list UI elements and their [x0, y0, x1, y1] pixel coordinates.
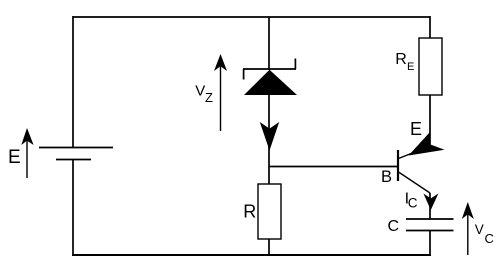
svg-text:C: C — [485, 231, 494, 246]
svg-text:V: V — [475, 222, 484, 237]
transistor Q1 base bar — [397, 150, 399, 181]
capacitor C plates — [406, 219, 454, 231]
label V_C — [475, 222, 494, 246]
wire zener branch top — [268, 17, 270, 70]
svg-text:Z: Z — [205, 90, 213, 105]
wire top rail — [73, 16, 430, 18]
current arrow on zener branch (pointing down) — [260, 122, 279, 151]
wire collector to capacitor — [429, 193, 431, 219]
svg-text:C: C — [388, 218, 400, 235]
wire bottom rail — [72, 254, 431, 256]
svg-text:E: E — [8, 147, 21, 168]
svg-text:E: E — [407, 61, 414, 73]
resistor RE body — [419, 38, 442, 95]
svg-text:E: E — [410, 119, 422, 139]
label R_E — [395, 51, 414, 73]
label V_Z — [195, 83, 213, 106]
wire base (node to transistor base) — [269, 166, 398, 168]
battery E plates — [39, 148, 113, 160]
arrow for E (battery voltage, pointing up) — [21, 128, 33, 178]
transistor Q1 emitter line — [399, 146, 431, 159]
svg-text:V: V — [195, 83, 205, 100]
wire left upper — [72, 16, 74, 148]
wire resistor R to bottom rail — [268, 239, 270, 255]
wire capacitor to bottom rail — [429, 231, 431, 257]
svg-text:R: R — [395, 51, 407, 68]
svg-text:B: B — [381, 168, 392, 186]
wire left lower — [72, 160, 74, 256]
zener diode (cathode bar with hooks + filled triangle) — [243, 59, 297, 96]
arrow V_C (pointing up) — [462, 202, 474, 255]
wire zener to resistor R (through base node) — [268, 95, 270, 184]
svg-text:C: C — [408, 196, 418, 211]
svg-text:R: R — [243, 202, 256, 222]
current arrow I_C (pointing down) — [423, 194, 438, 211]
resistor R body — [258, 184, 281, 239]
wire right top (top rail down to RE) — [429, 16, 431, 38]
transistor Q1 emitter arrow (PNP, pointing at base bar) — [409, 132, 445, 156]
label I_C — [405, 191, 418, 211]
transistor Q1 collector line — [399, 172, 431, 193]
wire RE to emitter — [429, 95, 431, 146]
arrow V_Z (pointing up) — [214, 54, 227, 131]
